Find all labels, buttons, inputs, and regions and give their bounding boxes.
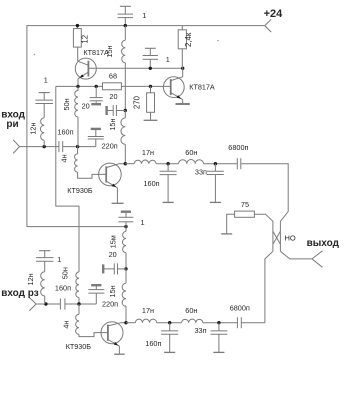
svg-text:17н: 17н [142,306,154,315]
speck [217,40,218,41]
inductor 60n ch2 [182,319,203,323]
resistor 2.4k lead [181,26,183,30]
wire choke down to 20-cap node [124,63,126,111]
label 15n ch2 [108,285,117,297]
wire D seg2 [157,322,182,324]
wire C seg3 [204,163,238,165]
wire R270 to ground [150,112,152,120]
ground 33p ch1 [210,201,221,203]
inductor 15m ch2 [122,231,126,252]
label 1 input ch2 [57,255,61,264]
ground R270 [144,119,158,121]
node 4n ch1 [76,145,79,148]
node rail/choke junction [124,24,127,27]
svg-text:КТ817А: КТ817А [83,48,109,57]
node 160p shunt ch1 [166,162,169,165]
label 1 (ch2 bypass) [141,218,145,227]
inductor 4n ch1 [75,154,78,172]
capacitor 20 (horiz, to ground) ch1 [107,105,126,116]
label 60n ch2 [185,306,197,315]
label 160p shunt ch2 [145,339,161,348]
wire D seg1 [126,322,135,324]
wire to lower choke ch1 [124,111,126,119]
svg-text:ри: ри [6,119,18,130]
svg-text:2,4к: 2,4к [184,32,193,47]
ground Q3 emitter [112,202,124,204]
node 20-cap/R68 [95,85,98,88]
label 17n ch2 [142,306,154,315]
svg-text:60н: 60н [185,148,197,157]
node 12n ch2 [44,302,47,305]
terminal +24 [265,19,271,32]
ground 160p ch2 [164,351,175,353]
ground R75 [221,233,232,235]
wire 50n ch1 to input node [77,117,79,147]
wire C to transformer [241,164,288,222]
svg-text:КТ930Б: КТ930Б [66,342,92,351]
label 220p ch1 [102,142,118,151]
svg-text:15м: 15м [108,235,117,248]
wire input1 left [20,146,59,148]
capacitor 160p series ch2 [60,299,65,310]
resistor 75 [235,211,255,217]
resistor 12 [73,29,81,47]
wire to 15n choke ch2 [125,269,127,283]
speck [34,54,35,55]
wire choke to collector node ch1 [124,144,126,163]
svg-text:17н: 17н [142,148,154,157]
svg-text:160п: 160п [55,284,71,293]
wire C seg2 [156,163,178,165]
label 4n ch2 [61,321,70,329]
label 15n upper [105,45,114,57]
node 33p shunt ch2 [217,321,220,324]
ground 33p ch2 [213,351,224,353]
label 50n ch2 [61,267,70,279]
label 6800p ch2 [230,304,250,313]
svg-text:15н: 15н [108,285,117,297]
label ri [6,119,18,130]
wire input2 right [65,303,96,305]
label 20 (vert cap ch1) [82,102,90,111]
label vhod [1,109,25,120]
svg-text:50н: 50н [61,267,70,279]
wire input1 right [63,146,96,148]
svg-text:1: 1 [166,55,170,64]
label 2,4k [184,32,193,47]
capacitor 6800p ch2 [237,317,241,328]
label 160p series ch2 [55,284,71,293]
svg-text:6800п: 6800п [228,143,248,152]
node rail2/cap1 ch2 [124,225,127,228]
wire to 15m choke [125,227,127,232]
svg-text:12: 12 [80,35,89,44]
inductor 17n ch2 [135,319,156,323]
svg-text:160п: 160п [145,339,161,348]
transistor Q1 KT817A (mirrored) [75,58,96,86]
label 20 (horiz cap ch1) [109,92,117,101]
label KT930B (Q4) [66,342,92,351]
wire emitter-line down to ch2 feed [56,86,79,272]
svg-text:КТ817А: КТ817А [189,83,215,92]
svg-text:12н: 12н [26,273,35,285]
label 6800p ch1 [228,143,248,152]
svg-text:160п: 160п [144,179,160,188]
capacitor 1 input ch2 to ground [36,251,54,272]
capacitor 220p ch2 to ground above [88,285,104,304]
inductor 17n ch1 [134,160,156,164]
label vhod rz [1,288,39,299]
capacitor 20 (horiz, to ground) ch2 [103,263,126,274]
label 12 [80,35,89,44]
inductor 12n ch2 [41,272,45,296]
node cap1-mid / wire A [149,67,152,70]
svg-text:270: 270 [132,95,141,109]
node 20-cap junction ch1 [124,109,127,112]
label 15n lower [108,119,117,131]
capacitor 33p shunt ch2 [211,323,228,352]
svg-text:НО: НО [285,233,296,242]
terminal output [312,251,322,267]
label 270 [132,95,141,109]
node Q4 collector [124,321,127,324]
wire transformer right-bottom to output [280,251,312,259]
capacitor 33p shunt ch1 [207,164,224,202]
resistor 12 (top lead) [76,26,78,29]
svg-text:60н: 60н [185,306,197,315]
wire R75 right to transformer [254,214,273,221]
node rail/R12 [76,24,79,27]
resistor 68 [103,83,122,90]
resistor 2.4k [178,30,186,49]
label 50n ch1 [62,98,71,110]
label KT930B (Q3) [67,186,93,195]
svg-text:15н: 15н [108,119,117,131]
label 33p ch2 [195,326,207,335]
node R270 top [149,85,152,88]
label 12n ch1 [28,123,37,135]
inductor 50n ch1 [75,86,78,117]
inductor 15n (lower choke ch1) [121,118,125,144]
ground Q2 emitter [176,103,190,105]
wire 15n ch2 to collector node [125,306,127,322]
svg-text:50н: 50н [62,98,71,110]
node Q3 collector [124,162,127,165]
label 160p series ch1 [57,127,73,136]
svg-text:68: 68 [109,72,117,81]
svg-text:12н: 12н [28,123,37,135]
svg-text:20: 20 [82,102,90,111]
svg-text:6800п: 6800п [230,304,250,313]
svg-text:220п: 220п [102,142,118,151]
capacitor 160p shunt ch1 [160,164,177,202]
label vyhod [307,238,340,249]
label KT817A (Q2) [189,83,215,92]
label 1 input ch1 [44,76,48,85]
wire C seg1 [125,163,134,165]
svg-text:33п: 33п [195,326,207,335]
svg-text:160п: 160п [57,127,73,136]
wire 4n to Q3 base [78,147,107,179]
inductor 15n ch2 [122,283,126,306]
wire 12n to input node [43,140,45,146]
label 220p ch2 [102,300,118,309]
resistor 270 [147,93,155,113]
transformer winding right [279,221,281,251]
svg-text:выход: выход [307,238,340,249]
svg-text:75: 75 [241,200,249,209]
label 68 [109,72,117,81]
label 15m ch2 [108,235,117,248]
label 160p shunt ch1 [144,179,160,188]
label +24 [264,8,284,20]
svg-text:20: 20 [109,250,117,259]
wire R75 left to ground [227,214,235,233]
wire R12 to Q1 collector [77,47,79,61]
resistor 270 lead [150,86,152,92]
node 160p shunt ch2 [168,321,171,324]
transistor Q2 KT817A [163,68,184,103]
wire R2.4k to node [181,49,183,69]
transistor Q4 KT930B [101,322,126,354]
wire +24 rail and left feed line [27,26,265,227]
label 4n ch1 [59,154,68,162]
svg-text:33п: 33п [195,168,207,177]
wire 4n to Q4 base [79,304,108,337]
capacitor 1 (mid bypass) to ground [143,48,158,68]
inductor 12n ch1 [40,118,44,141]
svg-text:1: 1 [57,255,61,264]
wire input2 left [36,303,60,305]
capacitor 1 input ch1 to ground [35,93,53,118]
label 1 (top bypass) [142,11,146,20]
svg-text:вход рз: вход рз [1,288,39,299]
capacitor 160p series ch1 [59,141,63,152]
label 20 (horiz cap ch2) [109,250,117,259]
label KT817A (Q1) [83,48,109,57]
svg-text:1: 1 [141,218,145,227]
terminal input rz [29,298,36,311]
svg-text:4н: 4н [61,321,70,329]
node R2.4k / Q2 collector [181,67,184,70]
node 50n/4n ch2 [77,302,80,305]
label 12n ch2 [26,273,35,285]
wire transformer left-bottom down [265,251,273,322]
wire 15m to 20-cap node [125,253,127,269]
capacitor 1 (ch2 bypass) to ground [118,212,133,227]
capacitor 1 (top bypass) to ground [118,6,133,25]
label NO [285,233,296,242]
svg-text:1: 1 [142,11,146,20]
wire Q1 emitter line [56,85,171,87]
node Q1 emitter [76,85,79,88]
label 17n ch1 [142,148,154,157]
transformer winding left [272,221,274,251]
ground 160p ch1 [163,201,174,203]
label 75 [241,200,249,209]
terminal input ri [13,140,19,154]
inductor 15n (upper choke ch1) [122,40,126,63]
ground Q4 emitter [114,353,125,355]
label 60n ch1 [185,148,197,157]
svg-text:+24: +24 [264,8,284,20]
node 33p shunt ch1 [214,162,217,165]
inductor 50n ch2 [76,272,79,298]
label 33p ch1 [195,168,207,177]
wire D to transformer [241,322,265,324]
label 1 (mid bypass) [166,55,170,64]
wire 50n ch2 to input node [78,298,80,305]
svg-text:20: 20 [109,92,117,101]
svg-text:1: 1 [44,76,48,85]
wire D seg3 [203,322,238,324]
svg-text:4н: 4н [59,154,68,162]
transistor Q3 KT930B [99,163,126,203]
wire rail to choke [124,26,126,41]
inductor 60n ch1 [179,160,204,164]
node 12n ch1 [43,145,46,148]
capacitor 220p ch1 to ground above [88,129,104,147]
capacitor 20 (vert, to ground) ch1 [90,86,103,104]
svg-text:КТ930Б: КТ930Б [67,186,93,195]
node 20-cap junction ch2 [124,267,127,270]
capacitor 6800p ch1 [237,158,241,169]
svg-text:220п: 220п [102,300,118,309]
capacitor 160p shunt ch2 [161,323,178,352]
wire Q1 base to R2.4k [88,67,182,69]
inductor 4n ch2 [76,314,79,334]
transformer crossover [273,231,281,244]
wire 12n ch2 to input node [44,296,46,304]
